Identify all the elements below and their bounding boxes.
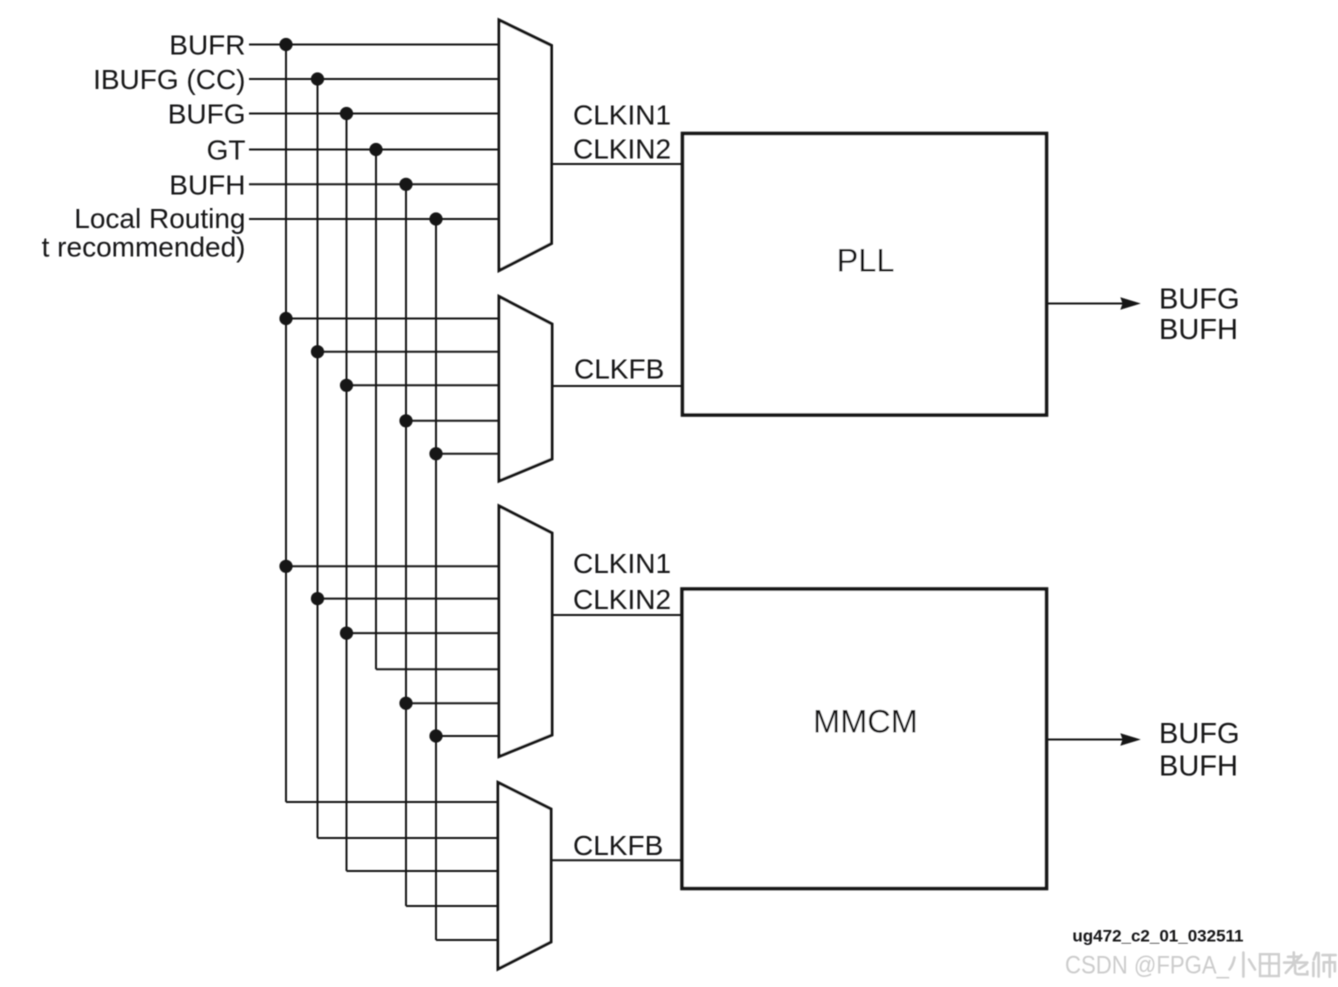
svg-text:CLKIN1: CLKIN1 (573, 548, 671, 579)
svg-text:CLKIN2: CLKIN2 (573, 584, 671, 615)
svg-text:CLKIN1: CLKIN1 (573, 99, 671, 130)
svg-text:PLL: PLL (837, 243, 895, 279)
svg-text:CSDN @FPGA_: CSDN @FPGA_ (1065, 952, 1230, 980)
svg-text:Local Routing: Local Routing (74, 203, 245, 234)
svg-text:IBUFG (CC): IBUFG (CC) (93, 64, 245, 95)
svg-text:CLKIN2: CLKIN2 (573, 134, 671, 165)
svg-text:GT: GT (207, 135, 246, 166)
svg-text:CLKFB: CLKFB (573, 830, 663, 861)
svg-text:BUFH: BUFH (1159, 751, 1238, 783)
svg-text:ug472_c2_01_032511: ug472_c2_01_032511 (1072, 927, 1243, 946)
svg-text:CLKFB: CLKFB (574, 353, 664, 384)
svg-text:MMCM: MMCM (813, 704, 918, 740)
svg-text:BUFG: BUFG (168, 99, 246, 130)
svg-text:BUFG: BUFG (1159, 284, 1240, 316)
svg-text:BUFG: BUFG (1159, 718, 1240, 750)
svg-text:BUFH: BUFH (169, 170, 245, 201)
svg-text:t recommended): t recommended) (42, 232, 246, 263)
svg-text:BUFH: BUFH (1159, 314, 1238, 346)
svg-text:BUFR: BUFR (169, 30, 245, 61)
